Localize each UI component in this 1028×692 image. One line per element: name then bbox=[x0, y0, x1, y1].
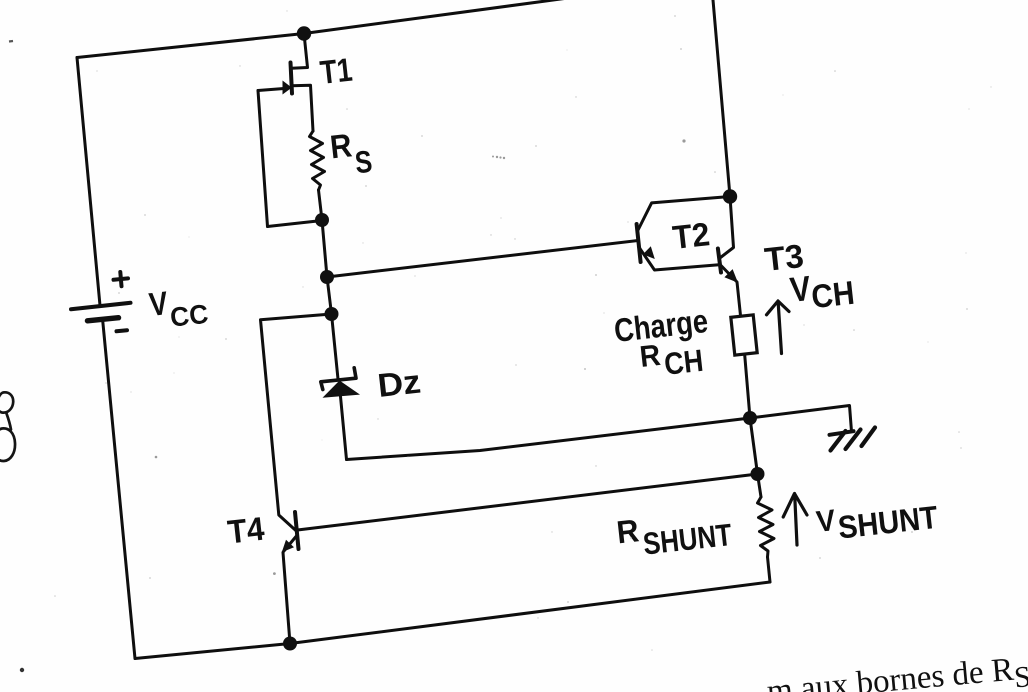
label Dz bbox=[376, 362, 423, 403]
wire T1 right lead to RS bbox=[292, 85, 314, 131]
svg-text:Dz: Dz bbox=[376, 362, 423, 403]
wire T1 emitter lead bbox=[258, 89, 284, 91]
transistor T4 emitter arrow bbox=[282, 540, 294, 553]
wire T4 base bbox=[298, 474, 758, 530]
node dot right rail top bbox=[723, 189, 737, 203]
wire left rail lower bbox=[103, 319, 136, 659]
svg-text:T2: T2 bbox=[671, 215, 712, 256]
handwritten squiggle left margin bbox=[0, 392, 15, 461]
wire T4 collector branch bbox=[261, 314, 332, 531]
wire loop left bbox=[258, 91, 268, 227]
wire zener bottom lead bbox=[341, 397, 347, 460]
wire top right segment bbox=[304, 0, 568, 34]
wire rail RCH to RSHUNT bbox=[750, 418, 758, 474]
ink dot bottom left bbox=[20, 668, 24, 672]
ground symbol slashes bbox=[831, 428, 876, 451]
label RSHUNT bbox=[615, 502, 734, 564]
wire T3 emitter diagonal bbox=[721, 266, 741, 316]
resistor RS zigzag bbox=[310, 131, 325, 190]
ground symbol bar bbox=[830, 431, 854, 435]
wire RSHUNT top lead bbox=[758, 474, 762, 497]
arrow VSHUNT bbox=[783, 494, 807, 546]
transistor T2 emitter arrow bbox=[643, 246, 655, 259]
wire RS bottom bbox=[319, 190, 323, 220]
wire T4 emitter tail bbox=[283, 553, 290, 644]
node dot top bbox=[297, 26, 311, 40]
load RCH rectangle bbox=[731, 315, 757, 355]
label VSHUNT bbox=[815, 493, 940, 548]
battery plus sign bbox=[114, 272, 129, 286]
label RS bbox=[328, 124, 374, 183]
label VCC bbox=[147, 280, 210, 335]
wire T4 emitter diagonal bbox=[284, 537, 297, 552]
node dot T2 base tap bbox=[320, 270, 334, 284]
wire mid rail bbox=[322, 220, 338, 379]
wire RSHUNT bottom lead bbox=[768, 557, 771, 582]
node dot RS bottom bbox=[315, 213, 329, 227]
transistor T3 emitter arrow bbox=[724, 269, 738, 283]
zener diode Dz bar bbox=[321, 368, 356, 390]
label VCH bbox=[788, 264, 856, 317]
wire T3 collector step bbox=[721, 197, 734, 258]
zener diode Dz triangle bbox=[323, 381, 361, 398]
wire T2 emitter diagonal bbox=[639, 247, 720, 271]
speck top left bbox=[9, 40, 13, 43]
label T2 bbox=[671, 215, 712, 256]
wire top left rail bbox=[77, 34, 304, 58]
battery VCC short plate bbox=[88, 318, 119, 321]
transistor T4 bar bbox=[295, 512, 299, 549]
bottom page text fragment bbox=[765, 650, 1028, 692]
arrow VCH bbox=[767, 301, 790, 354]
wire left rail upper bbox=[77, 58, 100, 306]
transistor T1 bar bbox=[291, 63, 293, 94]
label T4 bbox=[226, 510, 267, 551]
wire ground branch bbox=[750, 406, 852, 432]
node dot T4 branch tap bbox=[325, 307, 339, 321]
battery VCC long plate bbox=[71, 303, 131, 310]
transistor T3 bar bbox=[718, 249, 721, 273]
transistor T1 emitter arrow bbox=[283, 81, 292, 95]
battery minus sign bbox=[117, 330, 128, 331]
wire RCH bottom lead bbox=[745, 353, 751, 419]
svg-text:T1: T1 bbox=[318, 51, 354, 91]
label RCH bbox=[638, 334, 705, 384]
svg-text:T4: T4 bbox=[226, 510, 267, 551]
wire right rail bbox=[713, 0, 730, 197]
node dot RCH bottom bbox=[743, 411, 757, 425]
transistor T2 bar bbox=[637, 224, 641, 262]
node dot T4 emitter bbox=[283, 637, 297, 651]
resistor RSHUNT zigzag bbox=[758, 497, 775, 557]
node dot RSHUNT top bbox=[751, 467, 765, 481]
wire T1 collector step bbox=[292, 34, 308, 69]
wire loop bottom bbox=[268, 221, 323, 227]
label T3 bbox=[763, 237, 806, 278]
label T1 bbox=[318, 51, 354, 91]
wire long middle to right bbox=[347, 418, 751, 460]
label Charge bbox=[612, 302, 709, 349]
wire bottom bbox=[135, 582, 770, 659]
wire T2 collector step bbox=[638, 197, 730, 231]
wire T2 base bbox=[327, 241, 638, 278]
